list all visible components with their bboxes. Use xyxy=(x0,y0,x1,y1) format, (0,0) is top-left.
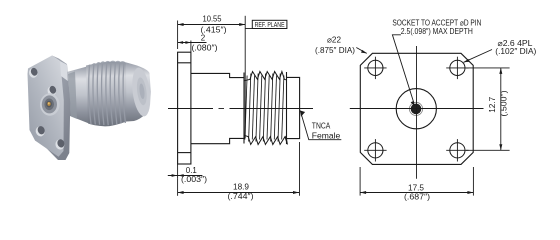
svg-text:⌀22: ⌀22 xyxy=(327,36,342,45)
TNCA Female label with leader xyxy=(300,111,341,140)
end cap outline xyxy=(287,77,300,138)
3D bolt hole top-right xyxy=(46,85,57,97)
svg-text:(.102″ DIA): (.102″ DIA) xyxy=(495,47,536,56)
3D flange side (thickness) xyxy=(35,56,70,161)
socket bore xyxy=(411,104,422,115)
flange outline chamfered square xyxy=(360,53,473,164)
3D thread texture stripes xyxy=(89,63,126,125)
3D threaded barrel xyxy=(86,62,128,127)
svg-text:REF. PLANE: REF. PLANE xyxy=(255,20,285,29)
3D bolt hole bottom-left xyxy=(34,125,46,137)
bolt hole bottom-right (front view) xyxy=(446,139,468,161)
3D end cap face xyxy=(130,67,153,118)
bolt hole top-left (front view) xyxy=(364,57,386,79)
dimension 17.5 (.687") xyxy=(360,167,473,196)
3D bolt hole top-left xyxy=(28,67,39,79)
bolt hole bottom-left (front view) xyxy=(364,139,386,161)
thread profile bottom edge xyxy=(244,135,287,144)
svg-text:(.875″ DIA): (.875″ DIA) xyxy=(315,46,355,55)
svg-text:(.080″): (.080″) xyxy=(192,43,218,52)
3D shadow of flange on cylinder xyxy=(68,72,77,120)
svg-text:(.687″): (.687″) xyxy=(404,193,430,202)
REF. PLANE box xyxy=(245,28,252,30)
horizontal centerline xyxy=(168,108,313,110)
dimension 0.1 (.003") xyxy=(168,164,203,179)
svg-text:18.9: 18.9 xyxy=(233,183,250,192)
svg-text:(.500″): (.500″) xyxy=(500,90,509,116)
thread barrel left face xyxy=(243,73,245,144)
dimension 12.7 (.500") xyxy=(466,68,510,150)
mid cylinder top outline xyxy=(191,73,244,77)
front view centerlines xyxy=(350,46,484,179)
svg-text:(.003″): (.003″) xyxy=(181,175,207,184)
svg-text:2.5(.098″) MAX DEPTH: 2.5(.098″) MAX DEPTH xyxy=(401,27,473,36)
bolt hole top-right (front view) xyxy=(446,57,468,79)
body circle xyxy=(396,89,436,129)
flange chamfer edge top xyxy=(178,62,191,64)
flange chamfer edge bottom xyxy=(178,152,191,154)
svg-text:0.1: 0.1 xyxy=(186,166,198,175)
3D center recess and gold pin xyxy=(40,93,60,115)
flange (side view) xyxy=(178,52,191,164)
svg-text:10.55: 10.55 xyxy=(203,15,223,24)
dimension 10.55 (.415") xyxy=(178,16,246,138)
thread profile top edge xyxy=(244,72,286,81)
3D plain cylinder section behind flange xyxy=(65,67,89,124)
svg-text:(.744″): (.744″) xyxy=(228,192,254,201)
thread end edge xyxy=(286,72,288,144)
3D flange top-right chamfer highlight xyxy=(52,56,68,82)
3D flange front face (chamfered square, tilted) xyxy=(28,56,64,157)
svg-text:12.7: 12.7 xyxy=(488,96,497,113)
svg-text:17.5: 17.5 xyxy=(408,183,425,192)
3D end cap cylinder xyxy=(126,62,151,121)
dimension 2 (.080") xyxy=(178,41,207,53)
thread flank hatch lines xyxy=(245,74,284,142)
3D bolt hole bottom-right xyxy=(54,138,66,150)
mid cylinder bottom outline xyxy=(191,138,244,143)
3D barrel thread scallop bumps xyxy=(87,61,125,68)
svg-text:Female: Female xyxy=(312,131,341,141)
svg-text:2: 2 xyxy=(201,34,206,43)
dimension 18.9 (.744") xyxy=(178,142,300,196)
svg-text:TNCA: TNCA xyxy=(312,121,331,131)
